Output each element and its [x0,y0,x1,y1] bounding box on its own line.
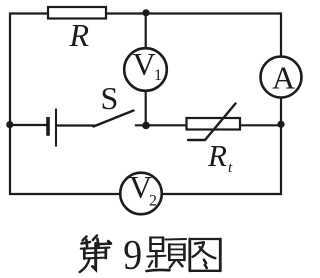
svg-text:R: R [69,17,90,53]
svg-text:A: A [272,60,295,96]
svg-text:t: t [228,160,233,176]
svg-text:1: 1 [154,67,162,84]
svg-text:2: 2 [149,193,157,210]
svg-text:R: R [207,138,227,173]
svg-text:S: S [101,80,119,116]
svg-text:9: 9 [123,231,142,278]
svg-text:V: V [133,46,156,82]
